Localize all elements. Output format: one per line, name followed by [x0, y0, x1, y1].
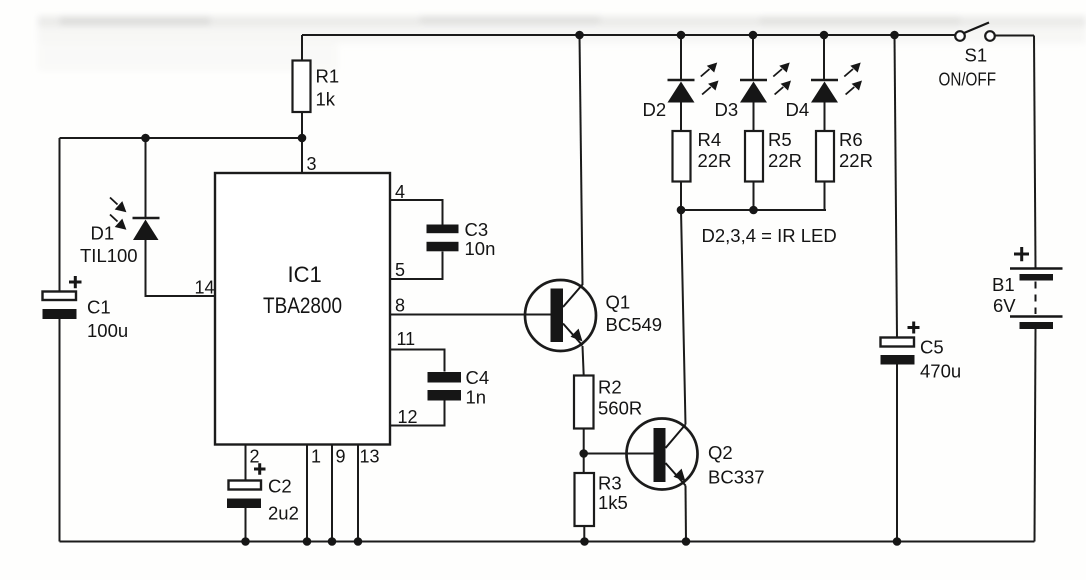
- svg-text:5: 5: [395, 260, 405, 280]
- svg-text:Q1: Q1: [606, 292, 631, 313]
- svg-text:BC549: BC549: [606, 314, 663, 335]
- svg-text:9: 9: [336, 447, 346, 467]
- junction dot: bottom rail / R3: [580, 537, 589, 546]
- svg-text:12: 12: [398, 407, 418, 427]
- svg-text:100u: 100u: [87, 320, 128, 341]
- wire R1 bottom to IC pin 3: [301, 112, 303, 173]
- junction dot: bottom rail / pin 9: [328, 537, 337, 546]
- svg-text:1: 1: [311, 447, 321, 467]
- photodiode D1 TIL100: [80, 198, 160, 267]
- svg-text:C1: C1: [87, 297, 111, 318]
- wire IC pin 13 to bottom rail: [357, 445, 359, 542]
- capacitor C3: [427, 219, 496, 259]
- wire Q2 emitter to bottom rail: [685, 486, 688, 542]
- wire D4 to R6: [824, 103, 826, 132]
- svg-text:470u: 470u: [920, 361, 961, 382]
- junction dot: LED rail / R4: [677, 206, 686, 215]
- wire Q1 emitter to R2: [583, 346, 584, 376]
- transistor Q1 BC549: [525, 280, 662, 351]
- svg-text:R6: R6: [839, 129, 863, 150]
- wire node A to Q2 base: [584, 453, 654, 455]
- svg-text:13: 13: [360, 447, 380, 467]
- junction dot: bottom rail / Q2 emitter: [682, 537, 691, 546]
- LED D2 (IR): [643, 63, 719, 121]
- svg-text:22R: 22R: [839, 150, 873, 171]
- svg-text:1k: 1k: [316, 89, 336, 110]
- junction dot: top rail / D3 branch: [749, 31, 758, 40]
- junction dot: top rail / D4 branch: [820, 31, 829, 40]
- wire top rail to Q1 collector: [580, 35, 583, 285]
- wire left rail upper: [59, 138, 61, 292]
- svg-text:560R: 560R: [598, 398, 642, 419]
- resistor R4: [673, 129, 732, 182]
- resistor R1: [293, 61, 340, 113]
- wire LED rail to Q2 collector: [681, 210, 686, 425]
- svg-text:2u2: 2u2: [268, 503, 299, 524]
- resistor R5: [745, 129, 802, 182]
- wire R4 to LED rail: [680, 182, 682, 211]
- wire D3 anode stem: [752, 35, 754, 80]
- wire right rail upper (to battery): [1034, 36, 1036, 268]
- capacitor C2 (electrolytic): [227, 463, 299, 523]
- svg-text:R1: R1: [316, 66, 340, 87]
- svg-text:D1: D1: [91, 223, 115, 244]
- junction dot: bottom rail / pin 1: [303, 537, 312, 546]
- wire D1 anode stem: [145, 138, 147, 218]
- wire R2 to node A junction to R3: [583, 429, 585, 474]
- wire R6 down to LED rail corner: [824, 182, 826, 211]
- resistor R6: [816, 129, 873, 182]
- junction dot: bottom rail / C2: [241, 537, 250, 546]
- resistor R2: [574, 376, 642, 429]
- wire top rail: [302, 34, 956, 36]
- wire bottom rail: [60, 541, 1035, 543]
- wire C2 to bottom rail: [245, 508, 247, 542]
- wire IC pin 4 to C3: [390, 200, 443, 225]
- junction dot: top rail / Q1 collector branch: [575, 31, 584, 40]
- svg-text:B1: B1: [992, 274, 1015, 295]
- capacitor C1 (electrolytic): [43, 276, 129, 341]
- IC U1: IC1 TBA2800: [215, 173, 390, 445]
- svg-text:11: 11: [397, 329, 416, 349]
- switch S1 ON/OFF: [939, 23, 997, 90]
- wire D2 anode stem: [680, 35, 682, 80]
- junction dot: top rail / D2 branch: [677, 31, 686, 40]
- wire R1 top stem: [301, 35, 303, 61]
- svg-text:10n: 10n: [465, 238, 496, 259]
- svg-text:D3: D3: [715, 99, 739, 120]
- wire right rail lower (battery to bottom): [1035, 329, 1036, 542]
- wire C3 to IC pin 5: [390, 252, 443, 280]
- wire LED bottom rail: [681, 209, 826, 211]
- junction dot: bottom rail / pin 13: [354, 537, 363, 546]
- wire C5 to bottom rail: [896, 365, 898, 542]
- svg-text:R5: R5: [768, 129, 792, 150]
- svg-text:TIL100: TIL100: [80, 245, 138, 266]
- svg-text:S1: S1: [965, 45, 988, 66]
- wire left rail lower: [59, 319, 61, 542]
- wire IC pin 11 to C4: [390, 350, 445, 372]
- capacitor C5 (electrolytic): [881, 322, 962, 382]
- wire R3 to bottom rail: [583, 526, 585, 542]
- svg-text:1n: 1n: [466, 387, 487, 408]
- junction dot: bottom rail / C5: [893, 537, 902, 546]
- svg-text:C2: C2: [268, 476, 292, 497]
- svg-text:22R: 22R: [698, 150, 732, 171]
- wire R5 to LED rail: [753, 182, 755, 211]
- svg-text:22R: 22R: [768, 150, 802, 171]
- svg-text:Q2: Q2: [708, 442, 733, 463]
- svg-text:R2: R2: [598, 377, 622, 398]
- svg-text:4: 4: [395, 182, 405, 202]
- svg-text:R3: R3: [598, 473, 622, 494]
- wire D3 to R5: [753, 103, 755, 132]
- svg-text:D4: D4: [786, 99, 810, 120]
- svg-text:D2,3,4 = IR LED: D2,3,4 = IR LED: [702, 225, 837, 246]
- svg-text:3: 3: [307, 154, 317, 174]
- capacitor C4: [428, 367, 490, 408]
- wire C4 to IC pin 12: [390, 401, 445, 426]
- junction dot: LED rail / R5: [749, 206, 758, 215]
- svg-text:1k5: 1k5: [598, 492, 628, 513]
- svg-text:TBA2800: TBA2800: [263, 293, 342, 318]
- svg-text:C5: C5: [920, 337, 944, 358]
- junction dot: node below R1: [298, 134, 307, 143]
- svg-text:C3: C3: [465, 219, 489, 240]
- svg-text:14: 14: [195, 278, 215, 298]
- wire S1 right to top-right corner: [995, 35, 1035, 37]
- wire IC pin 9 to bottom rail: [331, 445, 333, 542]
- wire IC pin 1 to bottom rail: [306, 445, 308, 542]
- junction dot: node at D1 anode: [141, 134, 150, 143]
- wire D4 anode stem: [823, 35, 825, 80]
- svg-text:R4: R4: [698, 129, 722, 150]
- wire D1 cathode to IC pin 14: [146, 240, 216, 296]
- svg-text:IC1: IC1: [288, 262, 322, 287]
- junction dot: node A (R2/R3/Q2 base): [579, 449, 588, 458]
- wire IC pin 2 to C2: [245, 445, 247, 481]
- svg-text:8: 8: [395, 296, 405, 316]
- svg-text:2: 2: [250, 447, 260, 467]
- wire IC pin 8 to Q1 base: [390, 314, 551, 316]
- wire top-left horizontal (C1/D1/R1 node): [60, 137, 303, 139]
- svg-text:ON/OFF: ON/OFF: [939, 70, 997, 90]
- svg-text:6V: 6V: [993, 295, 1016, 316]
- resistor R3: [575, 473, 628, 527]
- svg-text:BC337: BC337: [708, 467, 765, 488]
- svg-text:C4: C4: [466, 367, 490, 388]
- LED D3 (IR): [715, 63, 792, 121]
- svg-text:D2: D2: [643, 99, 667, 120]
- wire D2 to R4: [680, 103, 682, 132]
- battery B1 6V: [992, 247, 1063, 329]
- transistor Q2 BC337: [627, 419, 765, 490]
- LED D4 (IR): [786, 63, 863, 121]
- junction dot: top rail / C5 branch: [890, 31, 899, 40]
- wire top rail to C5: [895, 35, 898, 338]
